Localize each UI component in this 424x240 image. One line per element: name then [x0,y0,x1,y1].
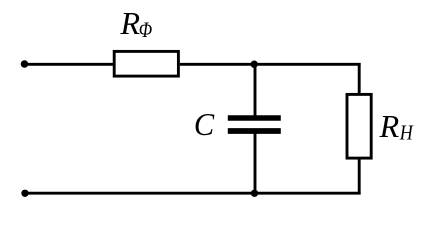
terminal node bottom-left [21,190,28,197]
capacitor C plate top [228,115,281,120]
svg-text:R: R [379,108,400,144]
wire resistor to corner [180,63,361,66]
wire R_H bottom lead [358,158,361,195]
wire capacitor top lead [254,64,257,117]
wire bottom return [25,192,361,195]
label R_H [379,108,415,145]
resistor R_Phi [114,51,178,76]
svg-text:H: H [399,121,414,145]
capacitor C plate bottom [228,128,281,134]
svg-text:R: R [120,5,141,41]
terminal node top-left [21,60,29,68]
node junction bottom [251,190,258,197]
resistor R_H [347,94,371,158]
svg-text:Φ: Φ [139,18,152,42]
wire capacitor bottom lead [254,130,257,193]
label R_Phi [120,5,153,42]
svg-text:C: C [194,106,215,142]
node junction top [251,60,258,67]
wire corner down to R_H [358,63,361,95]
wire input top [25,63,114,66]
